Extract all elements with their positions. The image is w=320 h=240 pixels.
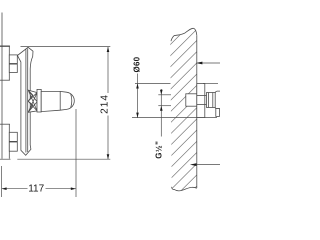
svg-text:117: 117 — [28, 183, 44, 194]
svg-text:Ø60: Ø60 — [132, 56, 141, 72]
svg-text:G½": G½" — [154, 141, 163, 159]
svg-text:214: 214 — [100, 94, 111, 114]
